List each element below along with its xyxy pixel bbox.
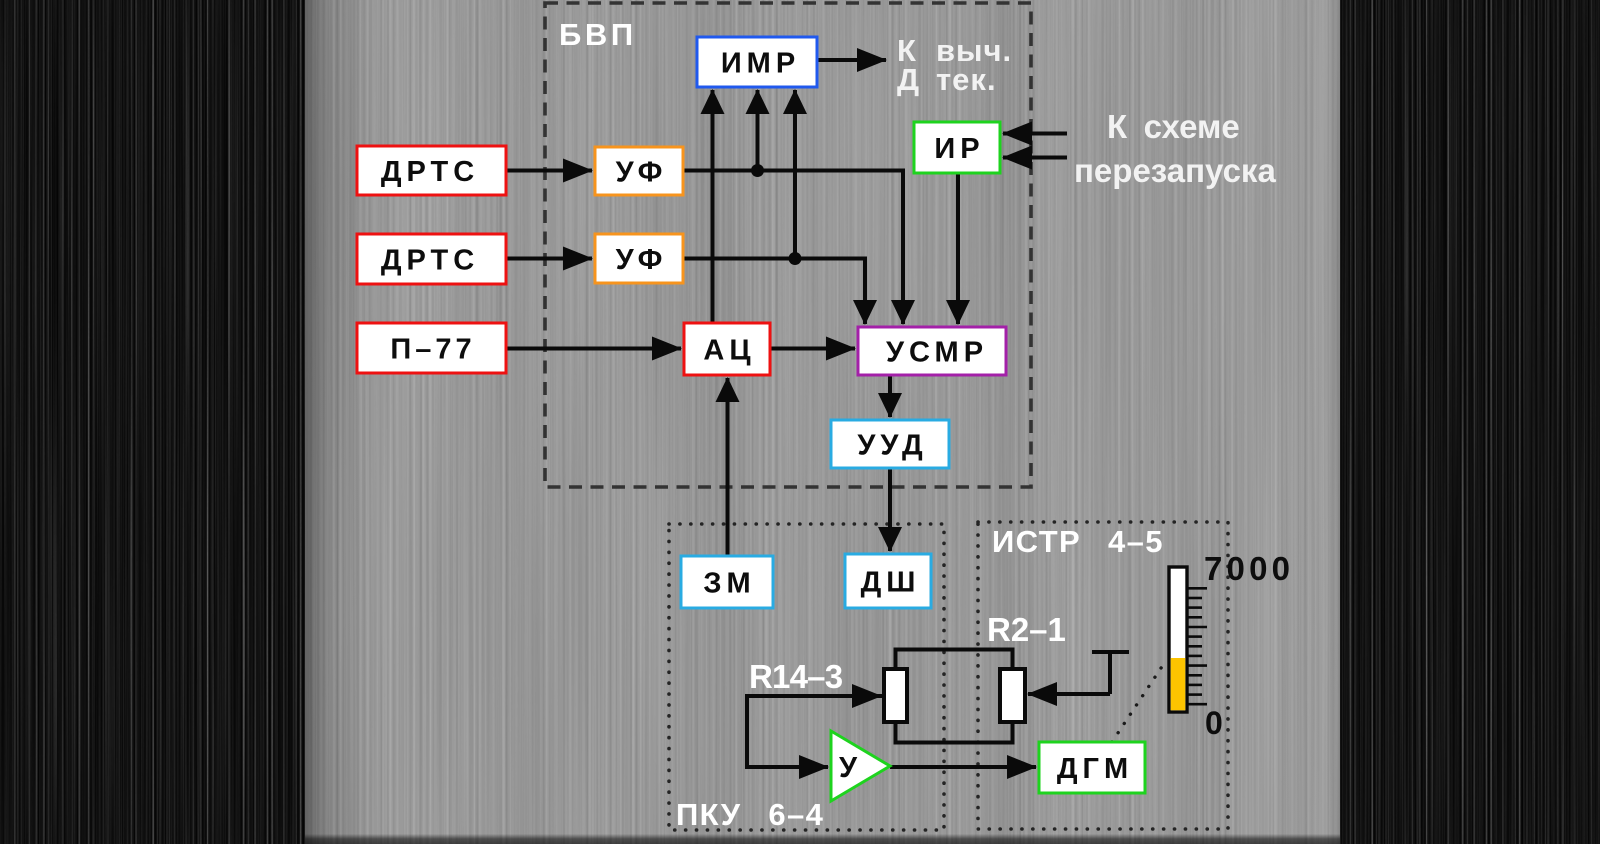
- block ЗМ: [681, 556, 773, 608]
- svg-text:УСМР: УСМР: [886, 337, 988, 369]
- svg-text:К схеме: К схеме: [1107, 108, 1240, 145]
- wire amplifier to ДГМ: [890, 765, 1036, 769]
- dashed enclosure БВП: [545, 3, 1031, 487]
- label R2-1: [987, 611, 1066, 648]
- wire ЗМ to АЦ: [726, 378, 730, 556]
- label R14-3: [749, 658, 843, 695]
- wire АЦ to УСМР: [770, 347, 855, 351]
- block УФ (bottom): [595, 234, 683, 283]
- wire УСМР to УУД: [888, 375, 892, 417]
- svg-text:ДРТС: ДРТС: [381, 156, 479, 188]
- wire ДРТС1 to УФ1: [506, 169, 592, 173]
- block ДГМ: [1039, 742, 1145, 793]
- label К схеме перезапуска: [1074, 108, 1276, 189]
- indicator tick marks: [1187, 588, 1207, 704]
- block УУД: [831, 420, 949, 468]
- svg-text:УФ: УФ: [616, 157, 668, 189]
- label К выч. Д тек.: [897, 33, 1012, 97]
- label БВП: [559, 17, 637, 52]
- svg-text:АЦ: АЦ: [703, 335, 755, 367]
- block П-77: [357, 323, 506, 373]
- node junction dot on УФ1 line: [751, 164, 764, 177]
- svg-text:перезапуска: перезапуска: [1074, 152, 1276, 189]
- svg-text:ИР: ИР: [934, 133, 984, 165]
- wire ДРТС2 to УФ2: [506, 257, 592, 261]
- block УСМР: [858, 327, 1006, 375]
- wire junction to ИМР (from УФ2 line): [793, 90, 797, 259]
- label 0: [1205, 705, 1223, 741]
- wire resistor loop bottom: [896, 721, 1013, 743]
- svg-text:ДГМ: ДГМ: [1057, 753, 1133, 785]
- terminal T-bar for R2-1 input: [1092, 652, 1129, 694]
- wire resistor loop top: [896, 650, 1013, 671]
- block АЦ: [684, 323, 770, 375]
- wire УФ1 to УСМР: [683, 171, 903, 325]
- wire П-77 to АЦ: [506, 347, 681, 351]
- svg-text:УУД: УУД: [857, 430, 927, 462]
- svg-text:У: У: [839, 752, 858, 784]
- label 7000: [1204, 550, 1294, 587]
- block ДРТС (bottom): [357, 234, 506, 284]
- svg-text:ДРТС: ДРТС: [381, 245, 479, 277]
- block ИМР: [697, 37, 817, 87]
- block ИР: [914, 122, 1000, 173]
- wire arrow into R14-3 resistor: [800, 694, 881, 698]
- block ДШ: [845, 554, 931, 608]
- wire input 1 to ИР: [1003, 132, 1067, 136]
- svg-text:ПКУ 6–4: ПКУ 6–4: [676, 797, 824, 832]
- svg-text:П–77: П–77: [390, 334, 475, 366]
- svg-text:ИМР: ИМР: [721, 48, 800, 80]
- svg-text:0: 0: [1205, 705, 1223, 741]
- dotted link ДГМ to indicator scale: [1112, 659, 1167, 742]
- svg-text:УФ: УФ: [616, 244, 668, 276]
- svg-text:ЗМ: ЗМ: [703, 568, 755, 600]
- svg-text:Д: Д: [897, 62, 919, 97]
- dotted enclosure ИСТР 4-5: [978, 522, 1228, 829]
- svg-text:R14–3: R14–3: [749, 658, 843, 695]
- wire input 2 to ИР: [1003, 156, 1067, 160]
- block УФ (top): [595, 147, 683, 195]
- wire УФ2 to УСМР: [683, 259, 865, 325]
- wire R14-3 input branch: [747, 696, 884, 767]
- wire ИР to УСМР: [956, 173, 960, 324]
- dotted enclosure ПКУ 6-4: [669, 524, 944, 830]
- svg-text:БВП: БВП: [559, 17, 637, 52]
- resistor R2-1: [1000, 669, 1025, 722]
- svg-text:тек.: тек.: [936, 62, 997, 97]
- wire ИМР output to К выч.: [817, 58, 886, 62]
- resistor R14-3: [884, 669, 907, 722]
- wire arrow into amplifier У: [760, 765, 828, 769]
- label ИСТР 4-5: [992, 524, 1164, 559]
- node junction dot on УФ2 line: [789, 252, 802, 265]
- wire into R2-1 resistor: [1028, 692, 1110, 696]
- amplifier У: [831, 731, 890, 801]
- svg-text:7000: 7000: [1204, 550, 1294, 587]
- background gray brushed panel: [305, 0, 1340, 844]
- wire junction to ИМР (from УФ1 line): [756, 90, 760, 171]
- svg-text:ИСТР 4–5: ИСТР 4–5: [992, 524, 1164, 559]
- block ДРТС (top): [357, 146, 506, 195]
- indicator scale bar: [1169, 567, 1187, 712]
- wire АЦ to ИМР: [711, 90, 715, 323]
- svg-text:ДШ: ДШ: [861, 567, 921, 599]
- label ПКУ 6-4: [676, 797, 824, 832]
- wire УУД to ДШ: [888, 468, 892, 551]
- svg-text:R2–1: R2–1: [987, 611, 1066, 648]
